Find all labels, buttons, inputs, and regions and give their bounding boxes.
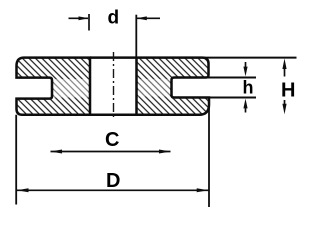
H bottom arrow	[282, 100, 286, 114]
hole top edge (section line across bore)	[90, 56, 137, 59]
faded hatch in left web (compression-faded area in original)	[54, 79, 89, 98]
faded hatch in right web (compression-faded area in original)	[138, 79, 170, 97]
h bottom arrow	[243, 99, 247, 113]
dimension d: right extension line and arrow	[136, 15, 160, 58]
h top arrow	[243, 62, 247, 76]
grommet body left section (hatched)	[17, 58, 91, 115]
D right extension line	[208, 98, 210, 208]
svg-text:h: h	[243, 78, 254, 98]
hole bottom edge	[90, 113, 137, 116]
svg-text:d: d	[108, 8, 120, 29]
dimension d: left tail and arrow	[69, 14, 90, 31]
svg-text:C: C	[105, 129, 119, 151]
grommet body right section (hatched)	[137, 58, 210, 115]
centerline of bore	[113, 52, 115, 118]
svg-text:D: D	[106, 170, 120, 192]
H top extension line (part top edge continued)	[204, 57, 297, 59]
h extension line bottom (slot bottom continued)	[209, 97, 256, 99]
D right arrow	[197, 188, 209, 192]
svg-text:H: H	[281, 80, 295, 102]
D left extension line	[15, 115, 17, 205]
dimension D line	[16, 189, 209, 191]
C right arrow	[159, 150, 171, 154]
D left arrow	[17, 188, 29, 192]
H top arrow	[282, 59, 286, 77]
h extension line top (slot top continued)	[204, 77, 256, 79]
C left arrow	[51, 150, 63, 154]
dimension C line	[51, 151, 171, 153]
